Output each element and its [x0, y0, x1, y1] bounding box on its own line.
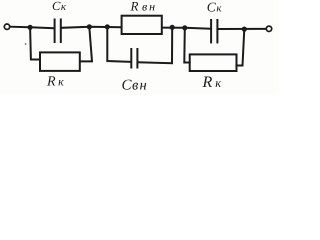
svg-text:Rк: Rк: [202, 74, 222, 91]
svg-text:Свн: Свн: [122, 78, 148, 94]
svg-text:Ск: Ск: [52, 0, 67, 13]
svg-text:Rк: Rк: [46, 75, 64, 90]
svg-text:Ск: Ск: [207, 0, 223, 15]
svg-text:Rвн: Rвн: [130, 0, 158, 14]
